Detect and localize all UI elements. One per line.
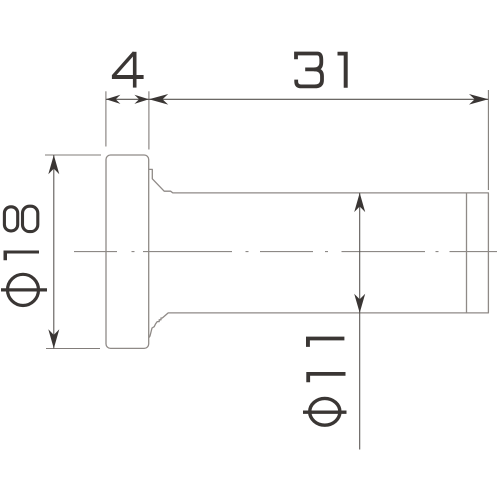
label 31 (digit 3): [296, 54, 322, 87]
arrowhead phi11 top: [354, 193, 365, 212]
arrowhead phi18 bottom: [48, 329, 59, 348]
arrowhead phi11 bottom: [354, 294, 365, 313]
arrowhead dim31 left: [149, 94, 168, 105]
tube end face line: [466, 193, 468, 313]
dimension line phi18: [53, 155, 55, 349]
label 31 (digit 1): [338, 52, 348, 88]
extension line right of dim 31: [487, 90, 489, 190]
label phi18 (digit 1, rotated): [4, 251, 40, 261]
arrowhead phi18 top: [48, 155, 59, 174]
extension line bottom of dim 18: [46, 348, 100, 350]
extension line top of dim 18: [45, 154, 101, 156]
centerline (dash-dot axis): [74, 251, 497, 253]
dimension line 4: [106, 98, 149, 100]
label phi11 (second digit 1, rotated): [306, 372, 345, 382]
arrowhead dim31 right: [469, 94, 488, 105]
label 4 (digit 4): [112, 52, 144, 88]
label phi11 (diameter symbol, rotated): [303, 398, 347, 425]
dimension line phi11: [359, 193, 361, 450]
arrowhead dim4 left: [106, 95, 121, 104]
flange outline: [106, 155, 149, 348]
extension line right of dim 4 / left of dim 31: [148, 91, 150, 149]
label phi18 (diameter symbol, rotated): [1, 274, 47, 305]
arrowhead dim4 right: [134, 95, 149, 104]
label phi18 (digit 8, rotated): [4, 206, 37, 231]
extension line left of dim 4: [105, 91, 107, 146]
dimension line 31: [149, 98, 488, 100]
label phi11 (first digit 1, rotated): [306, 337, 344, 347]
tube/neck outline: [149, 169, 489, 337]
